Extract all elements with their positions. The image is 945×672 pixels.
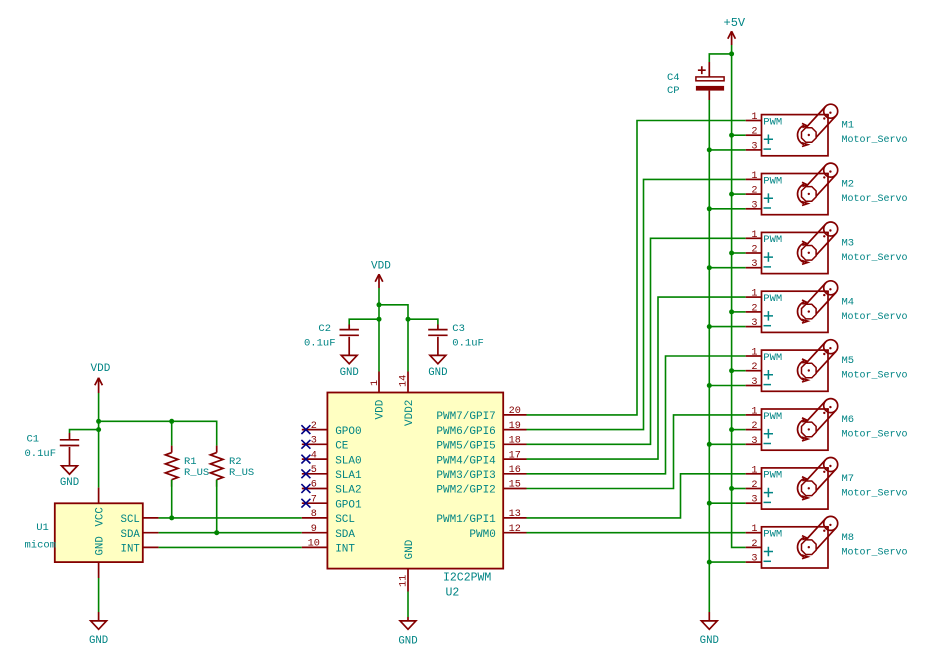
svg-text:PWM: PWM [763, 175, 782, 187]
svg-text:1: 1 [751, 406, 757, 417]
svg-text:SCL: SCL [121, 514, 140, 526]
wire VDD rail to R1 R2 [99, 421, 217, 445]
power symbol +5V [724, 16, 746, 45]
svg-text:M6: M6 [842, 414, 855, 426]
svg-text:C1: C1 [27, 433, 40, 445]
svg-text:1: 1 [751, 348, 757, 359]
svg-text:VDD: VDD [371, 260, 391, 272]
label M6 [842, 414, 855, 426]
svg-text:SLA2: SLA2 [335, 485, 361, 497]
component U2 I2C2PWM [302, 372, 527, 592]
junction R2 SDA [214, 530, 219, 535]
label Motor_Servo M2 [842, 194, 908, 205]
label U2 [446, 587, 460, 600]
capacitor C1 [25, 433, 80, 466]
junction +5V C4 [729, 51, 734, 56]
svg-text:12: 12 [509, 524, 521, 535]
svg-text:15: 15 [509, 480, 521, 491]
power symbol VDD (U2) [371, 260, 391, 288]
capacitor C2 [304, 323, 359, 355]
svg-text:14: 14 [399, 375, 410, 387]
svg-text:1: 1 [751, 289, 757, 300]
svg-text:PWM1/GPI1: PWM1/GPI1 [436, 514, 496, 526]
junction R1 SCL [169, 515, 174, 520]
svg-text:PWM: PWM [763, 352, 782, 364]
no-connect X pins 2-7 [301, 425, 310, 507]
svg-text:GND: GND [700, 635, 719, 647]
svg-text:R_US: R_US [229, 467, 254, 479]
svg-text:GPO0: GPO0 [335, 426, 361, 438]
wire branch to C1 [70, 430, 99, 433]
svg-text:PWM0: PWM0 [469, 529, 495, 541]
capacitor C4 polarized [667, 62, 724, 100]
label Motor_Servo M1 [842, 135, 908, 146]
capacitor C3 [428, 323, 484, 355]
svg-text:INT: INT [335, 544, 355, 556]
label M2 [842, 179, 855, 191]
wire to C2 [349, 319, 379, 324]
svg-text:2: 2 [751, 421, 757, 432]
svg-text:6: 6 [311, 480, 317, 491]
svg-text:9: 9 [311, 524, 317, 535]
svg-text:GND: GND [89, 635, 108, 647]
svg-text:3: 3 [751, 200, 757, 211]
svg-text:Motor_Servo: Motor_Servo [842, 194, 908, 205]
label M4 [842, 296, 855, 308]
svg-text:2: 2 [751, 245, 757, 256]
svg-text:R_US: R_US [184, 467, 209, 479]
svg-text:0.1uF: 0.1uF [304, 338, 336, 350]
label Motor_Servo M7 [842, 489, 908, 500]
ground GND (C1) [60, 466, 79, 489]
svg-text:Motor_Servo: Motor_Servo [842, 430, 908, 441]
svg-text:GND: GND [340, 367, 359, 379]
junctions GND rail at servo pin3 [707, 147, 712, 564]
svg-text:VCC: VCC [94, 507, 106, 526]
ground GND (rail) [700, 612, 719, 647]
label M8 [842, 532, 855, 544]
label micom [25, 540, 57, 552]
svg-text:Motor_Servo: Motor_Servo [842, 253, 908, 264]
svg-text:GND: GND [94, 536, 106, 555]
label Motor_Servo M3 [842, 253, 908, 264]
svg-text:M8: M8 [842, 532, 855, 544]
svg-text:VDD2: VDD2 [404, 400, 416, 426]
svg-text:1: 1 [751, 524, 757, 535]
svg-text:Motor_Servo: Motor_Servo [842, 135, 908, 146]
svg-text:2: 2 [751, 186, 757, 197]
svg-text:2: 2 [751, 303, 757, 314]
junction VDD C1 branch [96, 427, 101, 432]
junctions +5V rail at servo pin2 [729, 133, 734, 491]
svg-text:PWM5/GPI5: PWM5/GPI5 [436, 441, 495, 453]
wire to C3 [408, 319, 438, 324]
svg-text:SLA0: SLA0 [335, 455, 361, 467]
svg-text:3: 3 [751, 141, 757, 152]
svg-text:Motor_Servo: Motor_Servo [842, 312, 908, 323]
svg-text:3: 3 [751, 318, 757, 329]
svg-text:PWM7/GPI7: PWM7/GPI7 [436, 411, 495, 423]
svg-text:CE: CE [335, 441, 349, 453]
wire VDD vertical to U1 VCC [98, 393, 100, 488]
svg-text:PWM: PWM [763, 116, 782, 128]
wire VDD jog to VDD2 [379, 305, 408, 372]
svg-text:4: 4 [311, 450, 317, 461]
svg-text:11: 11 [399, 575, 410, 587]
wire VDD down to pin1 [378, 288, 380, 372]
label Motor_Servo M5 [842, 371, 908, 382]
svg-text:2: 2 [751, 127, 757, 138]
svg-text:17: 17 [509, 450, 521, 461]
connector M6 Motor_Servo [746, 399, 838, 451]
svg-text:PWM6/GPI6: PWM6/GPI6 [436, 426, 495, 438]
svg-text:5: 5 [311, 465, 317, 476]
wire SCL U1 to U2 [159, 517, 302, 519]
ground GND (C2) [340, 355, 359, 378]
svg-text:VDD: VDD [91, 363, 111, 375]
svg-text:20: 20 [509, 406, 521, 417]
wire U1 GND down [98, 578, 100, 612]
wire branch to C4 [709, 54, 731, 62]
svg-text:PWM2/GPI2: PWM2/GPI2 [436, 485, 495, 497]
svg-text:2: 2 [751, 362, 757, 373]
svg-text:PWM3/GPI3: PWM3/GPI3 [436, 470, 495, 482]
svg-text:C4: C4 [667, 72, 680, 84]
svg-text:PWM: PWM [763, 293, 782, 305]
svg-text:CP: CP [667, 85, 680, 97]
svg-text:SCL: SCL [335, 514, 355, 526]
wires PWM signals U2 to servos [527, 121, 746, 533]
svg-text:I2C2PWM: I2C2PWM [443, 571, 491, 584]
power symbol VDD (left) [91, 363, 111, 393]
svg-text:0.1uF: 0.1uF [452, 338, 484, 350]
svg-text:7: 7 [311, 494, 317, 505]
svg-text:10: 10 [308, 539, 320, 550]
svg-text:2: 2 [751, 480, 757, 491]
connector M7 Motor_Servo [746, 458, 838, 510]
wire GND rail vertical [708, 100, 710, 612]
svg-text:PWM: PWM [763, 234, 782, 246]
svg-text:M4: M4 [842, 296, 855, 308]
pin numbers U2 left [308, 421, 320, 550]
svg-text:VDD: VDD [375, 399, 387, 419]
svg-text:SDA: SDA [121, 529, 141, 541]
svg-text:U1: U1 [36, 522, 49, 534]
svg-text:19: 19 [509, 421, 521, 432]
connector M2 Motor_Servo [746, 163, 838, 215]
svg-text:13: 13 [509, 509, 521, 520]
wire +5V down [731, 45, 733, 54]
svg-text:C2: C2 [318, 323, 331, 335]
label Motor_Servo M8 [842, 547, 908, 558]
svg-text:0.1uF: 0.1uF [25, 448, 57, 460]
wire R1 top [171, 421, 173, 445]
svg-text:micom: micom [25, 540, 57, 552]
label M3 [842, 238, 855, 250]
resistor R1 [165, 446, 209, 487]
pin numbers U2 right [509, 406, 521, 535]
svg-text:16: 16 [509, 465, 521, 476]
svg-text:M5: M5 [842, 355, 855, 367]
svg-text:M3: M3 [842, 238, 855, 250]
ground GND (C3) [428, 355, 447, 378]
svg-text:PWM: PWM [763, 529, 782, 541]
connector M8 Motor_Servo [746, 516, 838, 568]
svg-text:PWM: PWM [763, 470, 782, 482]
label M7 [842, 473, 855, 485]
svg-text:3: 3 [751, 554, 757, 565]
wire INT U1 to U2 [159, 546, 302, 548]
connector M5 Motor_Servo [746, 340, 838, 392]
svg-text:SLA1: SLA1 [335, 470, 362, 482]
component U1 micom [55, 488, 159, 578]
junction R1 top [169, 419, 174, 424]
pin number 14 (VDD2) [399, 375, 410, 387]
svg-text:GPO1: GPO1 [335, 499, 362, 511]
svg-text:2: 2 [311, 421, 317, 432]
svg-text:SDA: SDA [335, 529, 355, 541]
svg-text:3: 3 [751, 259, 757, 270]
svg-text:GND: GND [398, 636, 417, 648]
svg-text:18: 18 [509, 436, 521, 447]
svg-text:8: 8 [311, 509, 317, 520]
junction VDD rail [96, 419, 101, 424]
svg-text:1: 1 [751, 465, 757, 476]
ground GND (U1) [89, 612, 108, 647]
label Motor_Servo M6 [842, 430, 908, 441]
svg-text:3: 3 [311, 436, 317, 447]
label M5 [842, 355, 855, 367]
svg-text:3: 3 [751, 377, 757, 388]
resistor R2 [210, 446, 254, 487]
pin names U2 [335, 399, 496, 559]
connector M3 Motor_Servo [746, 222, 838, 274]
wire U2 GND down [407, 592, 409, 618]
svg-text:Motor_Servo: Motor_Servo [842, 489, 908, 500]
svg-text:GND: GND [428, 367, 447, 379]
label U1 [36, 522, 49, 534]
ground GND (U2) [398, 617, 417, 648]
svg-text:Motor_Servo: Motor_Servo [842, 547, 908, 558]
pin number 1 (VDD) [370, 380, 381, 386]
svg-text:1: 1 [751, 112, 757, 123]
svg-text:PWM4/GPI4: PWM4/GPI4 [436, 455, 496, 467]
wire R2 bottom to SDA [216, 480, 218, 533]
svg-text:1: 1 [751, 171, 757, 182]
svg-text:M2: M2 [842, 179, 855, 191]
label M1 [842, 120, 855, 132]
svg-text:INT: INT [121, 544, 141, 556]
svg-text:1: 1 [751, 230, 757, 241]
label I2C2PWM [443, 571, 491, 584]
wires +5V rail to servo pin2 [732, 135, 746, 488]
svg-text:Motor_Servo: Motor_Servo [842, 371, 908, 382]
connector M1 Motor_Servo [746, 104, 838, 156]
svg-text:M1: M1 [842, 120, 855, 132]
svg-text:3: 3 [751, 495, 757, 506]
svg-text:M7: M7 [842, 473, 855, 485]
svg-text:GND: GND [60, 477, 79, 489]
wire +5V rail vertical [732, 54, 746, 548]
label Motor_Servo M4 [842, 312, 908, 323]
junction VDD A [377, 302, 382, 307]
svg-text:C3: C3 [452, 323, 465, 335]
junction VDD B [377, 317, 382, 322]
svg-text:GND: GND [404, 539, 416, 559]
connector M4 Motor_Servo [746, 281, 838, 333]
svg-text:3: 3 [751, 436, 757, 447]
junction VDD2 C [406, 317, 411, 322]
wire SDA U1 to U2 [159, 532, 302, 534]
svg-text:+5V: +5V [724, 16, 746, 30]
svg-text:PWM: PWM [763, 411, 782, 423]
svg-text:2: 2 [751, 539, 757, 550]
wires GND rail to servo pin3 [709, 150, 745, 562]
svg-text:1: 1 [370, 380, 381, 386]
svg-text:U2: U2 [446, 587, 460, 600]
pin number 11 (GND) [399, 575, 410, 587]
wire R1 bottom to SCL [171, 480, 173, 518]
